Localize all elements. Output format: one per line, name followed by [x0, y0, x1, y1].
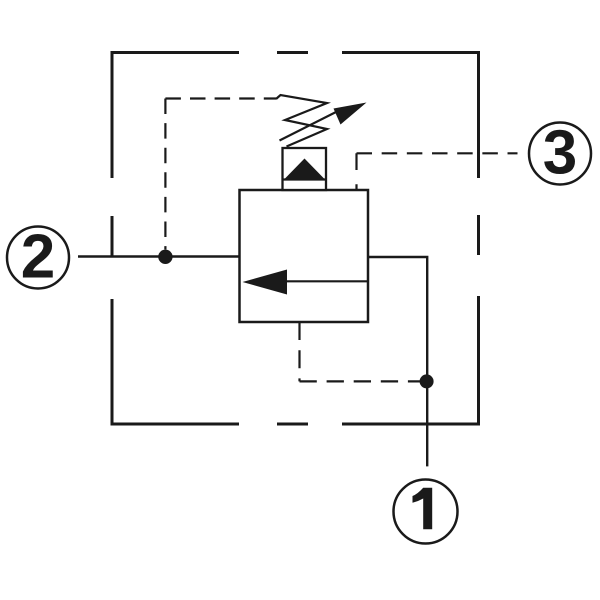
svg-text:2: 2: [21, 223, 55, 292]
enclosure border (cartridge boundary, dashed): [111, 51, 481, 426]
wire: port 1 riser: [368, 257, 427, 466]
wire: drain pilot line corner-to-junction (dashed horizontal): [300, 380, 424, 382]
adjustment arrow head: [334, 103, 367, 125]
wire: port 2 line: [78, 255, 240, 257]
pilot seat line: [283, 178, 327, 180]
spring (zigzag): [276, 95, 327, 147]
pilot poppet (filled triangle): [285, 159, 324, 179]
port label 2 circle: [7, 227, 69, 289]
junction dot B (port 1 / drain): [420, 374, 434, 388]
flow path line: [287, 280, 368, 282]
wire: pilot line junction-to-corner (dashed vertical): [164, 99, 166, 250]
wire: pilot line corner-to-spring (dashed horizontal): [165, 97, 276, 99]
wire: pilot line from port 3 (dashed horizontal): [357, 152, 518, 154]
port label 3 circle: [529, 123, 591, 185]
flow arrow head (points left): [243, 270, 288, 295]
adjustment arrow shaft: [280, 111, 339, 141]
pilot poppet box: [283, 148, 327, 190]
wire: pilot line corner-to-valve-top (dashed vertical): [355, 153, 357, 189]
svg-text:3: 3: [543, 119, 577, 188]
valve body U1: [240, 190, 369, 322]
port label 1 circle: [394, 480, 458, 544]
junction dot A (port 2 / pilot): [158, 250, 172, 264]
wire: drain pilot line body-to-corner (dashed vertical): [298, 322, 300, 381]
port label 1 glyph (Arial-style 1, drawn): [413, 488, 433, 529]
